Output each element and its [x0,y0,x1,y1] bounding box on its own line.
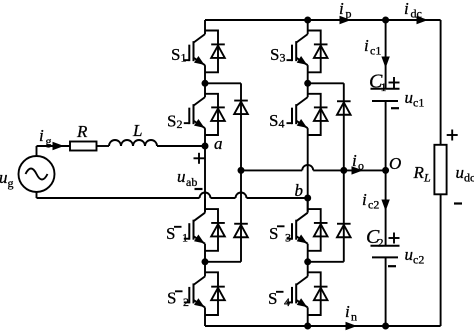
label + of uc2 [389,233,400,244]
wire C2 top lead [385,170,387,245]
wire left clamp column upper [240,83,242,170]
transistor S3 (IGBT with antiparallel diode) [287,20,328,83]
svg-text:S: S [171,45,180,64]
svg-text:n: n [351,310,357,324]
capacitor C1 [371,89,400,101]
wire C1 bottom lead [385,101,387,170]
node bottom rail - C2 [382,323,389,330]
label S3bar [269,224,291,245]
svg-text:O: O [389,154,401,173]
node S3bar-S4bar junction [304,258,311,265]
label ip [339,0,352,21]
svg-text:3: 3 [285,231,291,245]
wire right clamp column upper [343,83,345,170]
wire S4 emitter to node b [307,146,309,212]
label + of udc [447,130,458,141]
transistor S2 (IGBT with antiparallel diode) [184,83,225,146]
wire left clamp to S1bar-S2bar junction [205,261,241,263]
node a [202,143,209,150]
svg-text:1: 1 [381,80,387,94]
label - of uc1 [391,107,399,109]
svg-text:i: i [362,190,367,209]
transistor S4 (IGBT with antiparallel diode) [287,83,328,146]
current arrow ip [340,16,352,24]
label uc1 [405,88,425,110]
svg-text:c1: c1 [370,44,381,58]
label RL [413,163,432,185]
svg-text:u: u [456,163,465,182]
wire io left segment [241,169,302,171]
label + of uc1 [389,77,400,88]
svg-text:a: a [214,134,223,153]
svg-text:i: i [345,302,350,321]
label S1 [171,45,187,65]
label S2bar [167,289,189,310]
label - of udc [454,202,462,204]
transistor S1bar (IGBT with antiparallel diode) [184,199,225,262]
svg-text:u: u [405,245,414,264]
svg-text:3: 3 [280,51,286,65]
current arrow ig [53,142,65,150]
node S1-S2 junction [202,80,209,87]
svg-text:R: R [76,122,88,141]
label O [389,154,401,173]
label uc2 [405,245,425,267]
label - of uab [195,188,203,190]
current arrow idc [417,16,429,24]
label ug [0,168,14,190]
clamp diode D3 [337,101,351,115]
label idc [404,0,422,21]
svg-text:i: i [339,0,344,18]
svg-text:o: o [358,159,364,173]
label ic1 [364,36,381,58]
wire b segment 3 [247,197,308,199]
wire load branch upper [440,20,442,145]
svg-text:4: 4 [284,295,290,309]
resistor RL [434,145,446,195]
label S1bar [166,224,188,245]
wire b segment 1 [37,197,200,199]
current arrow ic2 [381,200,389,212]
svg-text:dc: dc [411,7,422,21]
svg-text:S: S [269,111,278,130]
ac source ug [19,156,55,192]
svg-text:1: 1 [181,51,187,65]
svg-text:g: g [8,176,14,190]
label S3 [270,45,286,65]
wire bottom dc rail (negative bus) [205,325,441,327]
node top rail - S3 leg [304,17,311,24]
node b [304,195,311,202]
label L [132,121,142,140]
label b [295,181,304,200]
capacitor C2 [371,246,400,258]
wire right clamp to S3bar-S4bar junction [308,261,344,263]
node bottom rail - S4bar leg [304,323,311,330]
label C1 [369,71,387,95]
wire hop over left clamp [236,193,247,199]
label + of uab [194,153,205,164]
node left clamp - io wire [238,167,245,174]
transistor S3bar (IGBT with antiparallel diode) [287,199,328,262]
label S4bar [268,289,290,309]
label in [345,302,357,324]
svg-text:2: 2 [177,117,183,131]
transistor S1 (IGBT with antiparallel diode) [184,20,225,83]
label S2 [167,112,183,132]
label ic2 [362,190,379,212]
svg-text:g: g [46,134,52,148]
label - of uc2 [388,265,396,267]
svg-text:i: i [352,151,357,170]
label uab [177,167,197,189]
wire L to node a [157,145,205,147]
inductor L [109,140,157,146]
wire S1-S2 junction to left clamp [205,82,241,84]
label C2 [366,226,384,250]
label R [76,122,88,141]
svg-text:i: i [39,126,44,145]
label a [214,134,223,153]
svg-text:c1: c1 [413,96,424,110]
svg-text:2: 2 [183,295,189,309]
node top rail - dc link [382,17,389,24]
wire hop over right leg [302,165,313,171]
clamp diode D1 [234,101,248,115]
wire a to S1bar leg [204,146,206,212]
wire load branch lower [440,194,442,326]
node right clamp - io wire [340,167,347,174]
svg-text:dc: dc [464,171,474,185]
transistor S4bar (IGBT with antiparallel diode) [287,262,328,326]
node S3-S4 junction [304,80,311,87]
label ig [39,126,52,148]
resistor R [70,142,97,151]
current arrow ic1 [381,57,389,69]
svg-text:ab: ab [186,175,197,189]
svg-text:i: i [364,36,369,55]
svg-text:u: u [405,88,414,107]
clamp diode D2 [234,224,248,238]
svg-text:S: S [167,112,176,131]
wire b segment 2 [211,197,236,199]
clamp diode D4 [337,224,351,238]
transistor S2bar (IGBT with antiparallel diode) [184,262,225,326]
wire left clamp column lower [240,170,242,261]
svg-text:R: R [413,163,425,182]
label io [352,151,364,173]
svg-text:u: u [177,167,186,186]
current arrow io [352,166,364,174]
wire source top lead [36,146,38,156]
wire C1 top lead [385,20,387,89]
node S1bar-S2bar junction [202,258,209,265]
svg-text:c2: c2 [368,198,379,212]
svg-text:S: S [270,45,279,64]
svg-text:L: L [132,121,142,140]
label udc [456,163,474,185]
svg-text:1: 1 [182,231,188,245]
label S4 [269,111,285,131]
svg-text:u: u [0,168,8,187]
svg-text:i: i [404,0,409,18]
svg-text:L: L [423,171,431,185]
svg-text:p: p [346,7,352,21]
wire S3-S4 junction to right clamp [308,82,344,84]
wire C2 bottom lead [385,257,387,326]
wire input ig segment [37,145,71,147]
svg-text:4: 4 [279,117,285,131]
wire hop over a leg [200,193,211,199]
current arrow in [346,322,358,330]
wire source bottom lead [36,192,38,198]
wire R to L [97,145,110,147]
svg-text:c2: c2 [413,253,424,267]
node O [382,167,389,174]
svg-text:2: 2 [378,236,384,250]
wire right clamp column lower [343,170,345,261]
wire top dc rail (positive bus) [205,19,441,21]
wire io right segment [313,169,385,171]
